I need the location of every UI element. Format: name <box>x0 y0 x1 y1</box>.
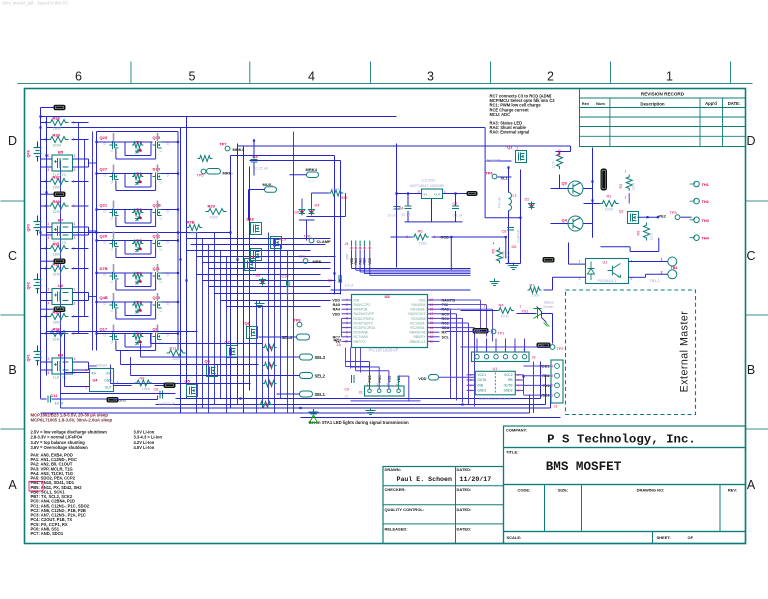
svg-text:REV:: REV: <box>728 488 737 493</box>
svg-text:R39: R39 <box>53 133 61 138</box>
svg-text:TP9: TP9 <box>299 255 306 259</box>
svg-text:TP2: TP2 <box>557 347 564 351</box>
svg-text:BMS MOSFET: BMS MOSFET <box>546 460 622 474</box>
svg-text:RA4: RA4 <box>333 308 341 312</box>
svg-text:1: 1 <box>45 180 47 184</box>
svg-text:C3: C3 <box>253 154 259 159</box>
svg-text:R56: R56 <box>558 150 562 157</box>
svg-text:TP1: TP1 <box>498 332 505 336</box>
svg-text:VDD: VDD <box>332 299 340 303</box>
svg-text:2: 2 <box>73 332 75 336</box>
svg-text:Q4: Q4 <box>562 218 568 223</box>
svg-text:PE2: PE2 <box>659 214 667 219</box>
svg-text:XS1: XS1 <box>521 310 528 314</box>
svg-text:19: 19 <box>430 303 434 307</box>
svg-text:MRK-: MRK- <box>313 259 324 264</box>
svg-text:GND2: GND2 <box>504 389 513 393</box>
svg-text:SHEET:: SHEET: <box>657 535 671 540</box>
svg-text:Q3: Q3 <box>562 181 568 186</box>
svg-text:SEL2: SEL2 <box>315 374 326 379</box>
svg-text:MRK4: MRK4 <box>306 167 318 172</box>
svg-text:RA5: RA5 <box>333 303 340 307</box>
svg-text:4: 4 <box>308 70 315 84</box>
svg-text:TH1: TH1 <box>702 182 710 187</box>
svg-text:11/20/17: 11/20/17 <box>460 476 492 483</box>
svg-text:3294: 3294 <box>332 188 340 192</box>
svg-text:4303: 4303 <box>173 357 181 361</box>
svg-text:OF: OF <box>688 535 694 540</box>
svg-text:DATED:: DATED: <box>457 507 472 512</box>
svg-text:R29: R29 <box>208 204 216 209</box>
svg-text:MCU: ADC: MCU: ADC <box>490 112 511 117</box>
svg-text:RC6/AN8: RC6/AN8 <box>354 331 368 335</box>
svg-text:100k: 100k <box>552 161 556 169</box>
svg-text:RB7/TX: RB7/TX <box>354 340 367 344</box>
svg-text:4R99: 4R99 <box>502 250 506 258</box>
svg-text:16: 16 <box>430 317 434 321</box>
svg-text:Green: Green <box>544 305 554 309</box>
svg-text:VPP: VPP <box>346 253 350 261</box>
svg-text:0.0022: 0.0022 <box>286 285 290 296</box>
svg-text:8: 8 <box>346 330 348 334</box>
svg-text:1003: 1003 <box>632 183 636 191</box>
svg-text:R5: R5 <box>492 249 496 254</box>
svg-text:RA4/P2B: RA4/P2B <box>354 308 369 312</box>
svg-text:3294: 3294 <box>53 210 61 214</box>
svg-text:COMPANY:: COMPANY: <box>506 428 527 433</box>
svg-text:4700: 4700 <box>501 315 509 319</box>
svg-text:2: 2 <box>484 305 486 309</box>
svg-text:2: 2 <box>73 204 75 208</box>
svg-text:RC2/EB4-: RC2/EB4- <box>410 326 425 330</box>
svg-text:OUTA: OUTA <box>478 378 487 382</box>
svg-text:SEL1: SEL1 <box>315 392 326 397</box>
svg-text:VDD: VDD <box>332 312 340 316</box>
svg-text:QF1: QF1 <box>27 354 31 361</box>
svg-text:R8: R8 <box>140 377 145 381</box>
svg-text:U1: U1 <box>493 367 498 371</box>
svg-text:2: 2 <box>73 121 75 125</box>
svg-text:R4: R4 <box>499 304 504 308</box>
svg-text:RC7: RC7 <box>333 335 340 339</box>
svg-text:KF7409P: KF7409P <box>485 159 501 163</box>
svg-text:0.1 uf: 0.1 uf <box>453 214 463 218</box>
svg-text:TH2: TH2 <box>702 199 710 204</box>
svg-text:18: 18 <box>430 307 434 311</box>
svg-text:B9: B9 <box>58 353 64 358</box>
svg-text:C: C <box>746 249 755 263</box>
svg-text:1: 1 <box>74 288 76 292</box>
svg-text:1806: 1806 <box>142 387 150 391</box>
svg-text:bms_mosfet_pdf - Saved to this: bms_mosfet_pdf - Saved to this PC <box>3 1 69 6</box>
svg-text:SEL3: SEL3 <box>315 355 326 360</box>
svg-text:R26: R26 <box>136 332 142 336</box>
svg-text:1: 1 <box>661 258 663 262</box>
svg-text:P S Technology, Inc.: P S Technology, Inc. <box>547 433 696 447</box>
svg-text:1: 1 <box>45 121 47 125</box>
svg-text:B: B <box>8 363 16 377</box>
svg-text:R1: R1 <box>607 195 612 199</box>
svg-text:R22: R22 <box>136 208 142 212</box>
svg-text:TH3: TH3 <box>702 218 710 223</box>
svg-text:6: 6 <box>346 321 348 325</box>
svg-text:VSS: VSS <box>388 375 392 383</box>
svg-text:DATED:: DATED: <box>457 467 472 472</box>
svg-text:9: 9 <box>346 335 348 339</box>
svg-text:1: 1 <box>74 357 76 361</box>
svg-text:2: 2 <box>48 222 50 226</box>
svg-text:4.5V Li-Ion: 4.5V Li-Ion <box>134 445 155 450</box>
svg-text:Rev: Rev <box>582 101 590 106</box>
svg-text:2: 2 <box>625 196 627 200</box>
svg-text:1: 1 <box>551 393 553 397</box>
svg-text:D2: D2 <box>525 198 530 202</box>
svg-text:TLP173: TLP173 <box>53 173 66 177</box>
svg-text:17: 17 <box>430 312 434 316</box>
svg-text:Description: Description <box>640 101 664 106</box>
svg-text:MRK-: MRK- <box>223 171 234 176</box>
svg-text:1: 1 <box>346 298 348 302</box>
svg-text:Green STA1 LED lights during s: Green STA1 LED lights during signal tran… <box>309 420 410 425</box>
svg-text:RA1/EB4-: RA1/EB4- <box>410 308 425 312</box>
svg-text:MCP6L71005 1.8-3.6V, 30nA-2.0u: MCP6L71005 1.8-3.6V, 30nA-2.0uA sleep <box>31 418 113 423</box>
svg-text:2: 2 <box>73 315 75 319</box>
svg-text:1: 1 <box>45 247 47 251</box>
svg-text:TP4: TP4 <box>486 172 494 176</box>
svg-text:4303: 4303 <box>190 232 198 236</box>
svg-text:RB4/SD41: RB4/SD41 <box>409 331 425 335</box>
svg-text:C10: C10 <box>282 275 289 279</box>
svg-text:R9: R9 <box>637 231 641 236</box>
svg-text:2: 2 <box>73 180 75 184</box>
svg-text:RA0: External signal: RA0: External signal <box>490 130 530 135</box>
svg-text:PGD: PGD <box>368 375 372 383</box>
svg-text:PS2561A-1: PS2561A-1 <box>598 279 617 283</box>
svg-text:1800: 1800 <box>53 126 61 130</box>
svg-text:1: 1 <box>625 170 627 174</box>
svg-text:Q27: Q27 <box>100 167 108 172</box>
svg-text:D9: D9 <box>295 211 300 215</box>
svg-text:3294: 3294 <box>53 143 61 147</box>
svg-text:Q8: Q8 <box>245 321 251 326</box>
svg-text:C7: C7 <box>453 202 458 206</box>
svg-text:C8: C8 <box>154 388 159 392</box>
svg-text:5: 5 <box>86 386 88 390</box>
svg-text:R6: R6 <box>418 229 424 234</box>
svg-text:L1: L1 <box>513 194 517 198</box>
svg-text:2: 2 <box>547 70 554 84</box>
svg-text:DATED:: DATED: <box>457 487 472 492</box>
svg-text:R21: R21 <box>136 172 142 176</box>
svg-text:OUT: OUT <box>105 386 112 390</box>
svg-text:RA0/EB4: RA0/EB4 <box>412 303 426 307</box>
svg-text:5: 5 <box>346 317 348 321</box>
svg-text:R33: R33 <box>53 116 61 121</box>
svg-text:2: 2 <box>73 267 75 271</box>
svg-text:J1: J1 <box>554 405 558 409</box>
svg-text:4: 4 <box>493 242 495 246</box>
svg-text:R38: R38 <box>53 199 61 204</box>
svg-text:TB1-2: TB1-2 <box>650 279 660 283</box>
svg-text:B: B <box>747 363 755 377</box>
svg-text:R26: R26 <box>341 196 348 200</box>
svg-text:C2: C2 <box>328 279 333 283</box>
svg-text:RC9: RC9 <box>279 238 287 242</box>
svg-text:47 uf: 47 uf <box>402 213 411 217</box>
svg-text:15: 15 <box>430 321 434 325</box>
svg-text:J4: J4 <box>345 242 349 246</box>
svg-text:XL1: XL1 <box>501 176 509 181</box>
svg-text:TP5: TP5 <box>197 174 204 178</box>
svg-text:2.5 VDC: 2.5 VDC <box>422 179 437 183</box>
svg-text:Q1: Q1 <box>507 145 513 150</box>
svg-text:SCALE:: SCALE: <box>507 535 522 540</box>
svg-text:R11: R11 <box>170 347 177 351</box>
svg-text:2: 2 <box>73 247 75 251</box>
svg-text:6: 6 <box>75 70 82 84</box>
svg-text:4: 4 <box>48 302 50 306</box>
svg-text:U6: U6 <box>58 283 64 288</box>
svg-text:SIZE:: SIZE: <box>558 488 568 493</box>
svg-text:RC0/EB4: RC0/EB4 <box>411 317 425 321</box>
svg-text:CHECKER:: CHECKER: <box>385 487 406 492</box>
svg-text:Q23: Q23 <box>100 135 108 140</box>
svg-text:MCP1804T-2502MB: MCP1804T-2502MB <box>410 184 445 188</box>
svg-text:QF3: QF3 <box>27 224 31 231</box>
svg-text:TLP173: TLP173 <box>53 307 66 311</box>
svg-text:D14: D14 <box>153 167 161 172</box>
svg-text:TB1: TB1 <box>671 266 678 270</box>
svg-text:10 uf: 10 uf <box>55 402 64 406</box>
svg-text:RC3/P1C/P2A: RC3/P1C/P2A <box>354 326 376 330</box>
svg-text:CLAMP: CLAMP <box>317 239 332 244</box>
svg-text:1030: 1030 <box>605 208 613 212</box>
svg-text:2: 2 <box>48 154 50 158</box>
svg-text:20: 20 <box>430 298 434 302</box>
svg-text:1800: 1800 <box>53 185 61 189</box>
svg-text:/DR: /DR <box>354 298 360 302</box>
svg-text:1003: 1003 <box>650 233 654 241</box>
svg-text:1: 1 <box>45 204 47 208</box>
svg-text:R23: R23 <box>136 239 142 243</box>
svg-text:0.047uF: 0.047uF <box>517 229 521 243</box>
svg-text:PGC: PGC <box>378 375 382 383</box>
svg-text:1: 1 <box>74 222 76 226</box>
svg-text:Q5: Q5 <box>185 379 191 384</box>
svg-text:PIC16F1829-I/P: PIC16F1829-I/P <box>368 348 398 353</box>
svg-text:DATE:: DATE: <box>728 101 740 106</box>
svg-text:1: 1 <box>666 70 673 84</box>
svg-text:A: A <box>747 478 756 492</box>
svg-text:0.22 uF: 0.22 uF <box>256 167 270 171</box>
svg-text:2: 2 <box>48 288 50 292</box>
svg-text:Q1B: Q1B <box>153 203 161 208</box>
svg-text:4309: 4309 <box>210 216 218 220</box>
svg-text:J2: J2 <box>359 391 363 395</box>
svg-text:2: 2 <box>48 357 50 361</box>
svg-text:Num: Num <box>596 101 605 106</box>
svg-text:IN+: IN+ <box>92 372 97 376</box>
svg-text:TITLE:: TITLE: <box>506 450 518 455</box>
svg-text:PC7: AND, SDO1: PC7: AND, SDO1 <box>31 531 64 536</box>
svg-text:Q21: Q21 <box>100 203 108 208</box>
svg-text:C8: C8 <box>502 230 507 234</box>
svg-text:D16: D16 <box>247 217 255 222</box>
svg-text:D4: D4 <box>315 204 320 208</box>
svg-text:3.6V = Overvoltage shutdown: 3.6V = Overvoltage shutdown <box>31 445 89 450</box>
svg-text:RC5/CPS/RX: RC5/CPS/RX <box>354 317 375 321</box>
svg-text:3294: 3294 <box>53 337 61 341</box>
svg-text:VSS: VSS <box>419 298 427 302</box>
svg-text:4: 4 <box>48 236 50 240</box>
svg-text:4: 4 <box>86 369 88 373</box>
svg-text:TLP173: TLP173 <box>53 241 66 245</box>
svg-text:1: 1 <box>579 260 581 264</box>
svg-text:4: 4 <box>48 168 50 172</box>
svg-text:RA2/COUT: RA2/COUT <box>408 312 425 316</box>
svg-text:4: 4 <box>48 371 50 375</box>
svg-text:1991: 1991 <box>419 242 427 246</box>
svg-text:3: 3 <box>74 236 76 240</box>
svg-text:MRK4: MRK4 <box>233 147 245 152</box>
svg-text:1: 1 <box>520 305 522 309</box>
svg-text:470 uH: 470 uH <box>498 197 502 209</box>
svg-text:3: 3 <box>346 307 348 311</box>
svg-text:10: 10 <box>344 340 348 344</box>
svg-text:GND: GND <box>104 379 112 383</box>
svg-text:D6: D6 <box>512 245 517 249</box>
svg-text:DRAWN:: DRAWN: <box>385 467 401 472</box>
svg-text:1: 1 <box>117 381 119 385</box>
svg-text:U3: U3 <box>385 294 391 299</box>
svg-text:2: 2 <box>517 147 519 151</box>
svg-text:D: D <box>8 134 17 148</box>
svg-text:B5: B5 <box>58 150 64 155</box>
svg-text:2: 2 <box>551 384 553 388</box>
svg-text:RB: RB <box>508 378 512 382</box>
svg-text:B4184: B4184 <box>97 364 107 368</box>
svg-text:R7: R7 <box>530 284 535 288</box>
svg-text:VCC2: VCC2 <box>504 373 513 377</box>
svg-text:1800: 1800 <box>53 320 61 324</box>
svg-text:Q4B: Q4B <box>100 295 108 300</box>
svg-text:TX: TX <box>335 340 340 344</box>
svg-text:P06: P06 <box>442 303 449 307</box>
svg-text:1: 1 <box>45 267 47 271</box>
svg-text:3: 3 <box>551 374 553 378</box>
svg-text:1: 1 <box>74 154 76 158</box>
svg-text:R3: R3 <box>619 184 623 189</box>
svg-text:10: 10 <box>345 395 349 399</box>
svg-text:TP8: TP8 <box>294 319 301 323</box>
svg-text:3294: 3294 <box>53 272 61 276</box>
svg-text:4: 4 <box>346 312 348 316</box>
svg-text:RA0/PB: RA0/PB <box>442 299 456 303</box>
svg-text:RA5/CCP2: RA5/CCP2 <box>354 303 371 307</box>
svg-text:D: D <box>746 134 755 148</box>
svg-text:Q20: Q20 <box>100 234 108 239</box>
svg-text:TPB: TPB <box>304 235 312 239</box>
svg-text:UL50612L3010-B: UL50612L3010-B <box>479 396 511 401</box>
svg-text:1800: 1800 <box>53 252 61 256</box>
svg-text:14: 14 <box>430 326 434 330</box>
svg-text:2: 2 <box>73 138 75 142</box>
svg-text:7: 7 <box>346 326 348 330</box>
svg-text:RC1/EB4-: RC1/EB4- <box>410 321 425 325</box>
svg-text:12: 12 <box>430 335 434 339</box>
svg-text:IN: IN <box>424 193 427 197</box>
svg-text:10 uf: 10 uf <box>388 214 396 218</box>
svg-text:IN4: IN4 <box>107 372 112 376</box>
svg-text:13: 13 <box>430 330 434 334</box>
svg-text:5: 5 <box>189 70 196 84</box>
svg-text:1: 1 <box>45 315 47 319</box>
svg-text:R7B: R7B <box>187 220 195 225</box>
svg-text:MUX-: MUX- <box>263 182 274 187</box>
svg-text:1000: 1000 <box>532 294 540 298</box>
svg-text:3: 3 <box>74 168 76 172</box>
svg-text:REVISION RECORD: REVISION RECORD <box>641 92 685 97</box>
svg-text:2: 2 <box>346 303 348 307</box>
svg-text:Q15: Q15 <box>153 135 161 140</box>
svg-text:C12: C12 <box>51 394 58 398</box>
svg-text:Q11: Q11 <box>153 266 161 271</box>
svg-text:1: 1 <box>45 138 47 142</box>
svg-text:C9: C9 <box>345 388 350 392</box>
svg-text:RA3/MC/VPP: RA3/MC/VPP <box>354 312 375 316</box>
svg-text:VCC1: VCC1 <box>478 373 487 377</box>
svg-text:GND1: GND1 <box>478 389 487 393</box>
svg-text:App'd: App'd <box>705 101 717 106</box>
svg-text:3: 3 <box>74 302 76 306</box>
svg-text:B6: B6 <box>256 274 261 278</box>
svg-text:3: 3 <box>427 70 434 84</box>
svg-text:TLP173: TLP173 <box>53 376 66 380</box>
svg-text:RC4/P1B/TX: RC4/P1B/TX <box>354 321 374 325</box>
svg-text:Q12: Q12 <box>153 234 161 239</box>
svg-text:SCL: SCL <box>442 335 450 339</box>
svg-text:1: 1 <box>45 332 47 336</box>
svg-text:DATED:: DATED: <box>457 527 472 532</box>
svg-text:INB: INB <box>478 383 483 387</box>
svg-text:R24: R24 <box>136 272 142 276</box>
svg-text:OUT: OUT <box>434 193 441 197</box>
svg-text:TP7: TP7 <box>220 143 227 147</box>
svg-text:Status: Status <box>544 301 554 305</box>
svg-text:Q10: Q10 <box>153 295 161 300</box>
svg-text:0.0033 uF: 0.0033 uF <box>159 402 176 406</box>
svg-text:1.0 uf: 1.0 uf <box>345 284 354 288</box>
svg-text:11: 11 <box>430 340 434 344</box>
svg-text:Paul E. Schoen: Paul E. Schoen <box>397 476 452 483</box>
svg-text:R20: R20 <box>136 141 142 145</box>
svg-text:A: A <box>8 478 17 492</box>
svg-text:RC7/AN9: RC7/AN9 <box>354 335 368 339</box>
svg-text:TP3: TP3 <box>670 211 677 215</box>
svg-text:C: C <box>8 249 17 263</box>
svg-text:QF2: QF2 <box>27 282 31 289</box>
svg-text:B7: B7 <box>58 218 64 223</box>
svg-text:VDD: VDD <box>418 376 426 381</box>
svg-text:QUALITY CONTROL:: QUALITY CONTROL: <box>385 507 425 512</box>
svg-text:R25: R25 <box>136 301 142 305</box>
svg-text:Q2: Q2 <box>619 210 624 214</box>
svg-text:4: 4 <box>551 364 553 368</box>
svg-text:OUTB: OUTB <box>504 383 513 387</box>
svg-text:RELEASED:: RELEASED: <box>385 527 408 532</box>
svg-text:Q6: Q6 <box>205 359 211 364</box>
svg-text:D7B: D7B <box>100 266 108 271</box>
